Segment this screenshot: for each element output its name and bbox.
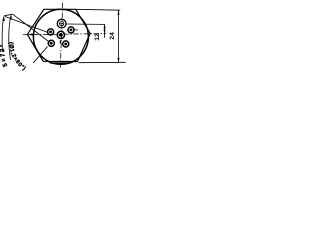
- svg-text:24: 24: [109, 32, 116, 40]
- rotated note text dia: [9, 42, 26, 72]
- dimension line 24: [118, 10, 120, 62]
- top extension line to dimensions: [76, 8, 120, 11]
- contact UR pin: [70, 29, 73, 32]
- horizontal centerline: [23, 34, 106, 35]
- contact UL ring: [48, 29, 54, 35]
- insert key flat chord: [50, 62, 71, 64]
- angular dimension arc inner: [9, 15, 11, 60]
- rotated note text 5x72: [4, 39, 7, 67]
- contact center ring: [57, 31, 64, 38]
- contact center pin: [59, 33, 63, 37]
- vertical centerline: [60, 3, 62, 68]
- svg-text:12: 12: [94, 33, 101, 41]
- angular dimension arc outer: [2, 17, 4, 52]
- contact key inner ring: [60, 21, 64, 25]
- leader shelf top-left: [4, 14, 13, 16]
- contact LL pin: [50, 42, 53, 45]
- contact key (top) outer ring: [57, 19, 66, 28]
- contact UR tick: [74, 29, 77, 31]
- bottom extension line: [79, 61, 126, 63]
- shell circle: [33, 9, 88, 64]
- contact LR pin: [64, 43, 67, 46]
- contact key slot dash: [60, 23, 63, 25]
- contact UR ring: [68, 27, 74, 33]
- leader crossing line: [33, 47, 47, 64]
- extension line from top contact: [66, 23, 105, 25]
- contact LR ring: [63, 41, 69, 47]
- leader line to contact LL: [13, 14, 50, 42]
- dimension line 12: [104, 24, 106, 37]
- dash blob on centerline below center contact: [59, 40, 61, 43]
- contact UL pin: [49, 31, 52, 34]
- radial extension line through contact UL: [5, 16, 48, 32]
- contact LL ring: [48, 40, 54, 46]
- arrowhead at left vertex on centerline: [28, 33, 34, 36]
- hexagon flange outline: [27, 9, 90, 61]
